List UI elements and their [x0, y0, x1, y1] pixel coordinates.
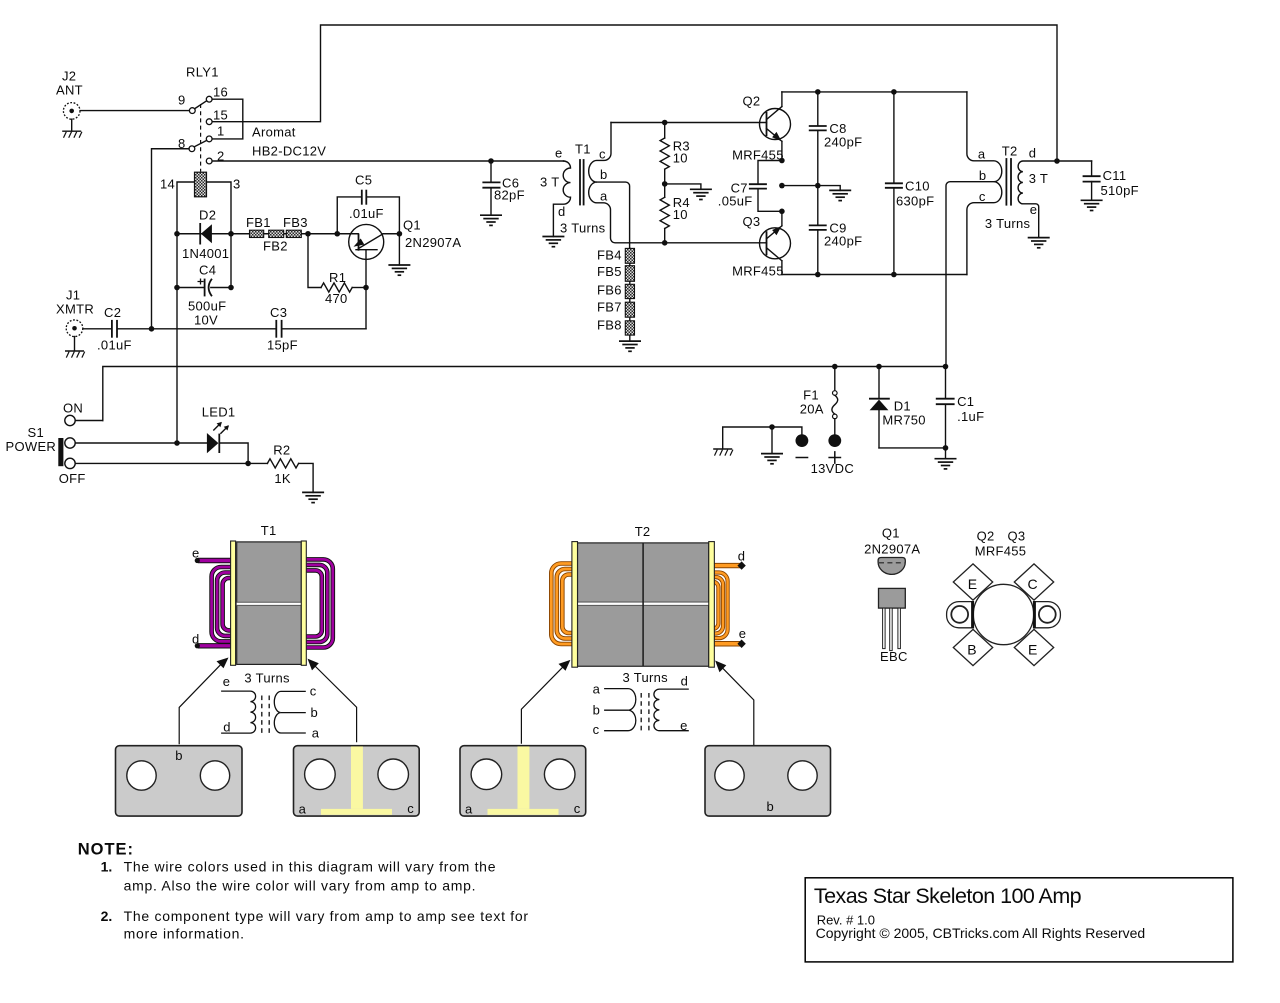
relay RLY1	[178, 65, 326, 172]
node 13VDC plus terminal	[828, 434, 841, 447]
transistor Q2	[732, 92, 790, 163]
ground chassis J2	[62, 131, 82, 138]
wire FB chain to ground	[629, 248, 631, 341]
ground Q1	[388, 265, 410, 275]
svg-text:3 T: 3 T	[540, 175, 559, 190]
svg-text:Aromat: Aromat	[252, 125, 296, 140]
svg-text:a: a	[978, 146, 986, 161]
svg-text:amp. Also the wire color will: amp. Also the wire color will vary from …	[124, 878, 477, 894]
ground T1-d	[542, 237, 564, 247]
resistor R3	[660, 123, 690, 184]
svg-text:c: c	[593, 722, 600, 737]
svg-text:240pF: 240pF	[824, 135, 862, 150]
svg-text:20A: 20A	[800, 402, 824, 417]
svg-text:RLY1: RLY1	[186, 65, 219, 80]
svg-text:B: B	[967, 641, 976, 657]
arrow to T1 right strip	[308, 659, 357, 743]
svg-text:Q2: Q2	[743, 94, 761, 109]
switch S1	[6, 400, 86, 486]
ferrite bead FB6	[625, 284, 634, 298]
connector J2	[56, 69, 83, 132]
svg-text:NOTE:: NOTE:	[78, 841, 134, 859]
capacitor C6	[483, 158, 525, 215]
node C8/C9 junction	[815, 183, 821, 189]
wire ON contact to rail	[75, 420, 102, 422]
svg-text:d: d	[223, 719, 231, 734]
svg-text:10V: 10V	[194, 313, 218, 328]
ground C7 row	[829, 190, 851, 200]
svg-text:1K: 1K	[274, 471, 291, 486]
svg-text:b: b	[175, 748, 183, 763]
svg-text:2N2907A: 2N2907A	[405, 235, 461, 250]
T2 core body	[578, 543, 709, 666]
svg-text:d: d	[192, 631, 200, 646]
ground 13VDC chassis	[713, 449, 733, 456]
svg-text:FB8: FB8	[597, 318, 622, 333]
svg-text:R1: R1	[329, 270, 346, 285]
svg-text:1N4001: 1N4001	[182, 246, 229, 261]
svg-text:T2: T2	[635, 524, 651, 539]
svg-text:a: a	[312, 725, 320, 740]
heatsink plate 1	[116, 746, 243, 816]
capacitor C3	[267, 305, 366, 353]
transformer T2 (schematic)	[946, 92, 1057, 367]
svg-text:d: d	[738, 548, 746, 563]
svg-text:Q1: Q1	[882, 526, 900, 541]
svg-text:T1: T1	[261, 523, 277, 538]
svg-text:b: b	[311, 705, 319, 720]
svg-text:POWER: POWER	[6, 439, 57, 454]
transformer T1 (schematic)	[540, 123, 767, 249]
svg-text:S1: S1	[28, 425, 45, 440]
svg-text:MRF455: MRF455	[975, 544, 1027, 559]
ground C6	[480, 215, 502, 225]
node T2-d junction	[1054, 158, 1060, 164]
resistor R1	[308, 234, 366, 306]
svg-text:c: c	[574, 801, 581, 816]
svg-text:3 Turns: 3 Turns	[985, 216, 1031, 231]
svg-text:a: a	[600, 189, 608, 204]
transformer T2 physical drawing	[521, 524, 753, 746]
arrow to T1 left strip	[179, 658, 228, 745]
capacitor C5	[337, 173, 399, 234]
ferrite bead FB4	[625, 248, 634, 263]
LED LED1	[202, 405, 236, 454]
T1 winding pictogram	[221, 674, 320, 740]
wire collector rail bottom	[782, 274, 967, 276]
svg-text:a: a	[465, 802, 473, 817]
wire LED1 to OFF row	[219, 443, 248, 463]
wire S1 common to LED1	[75, 442, 207, 444]
transistor Q3	[732, 211, 790, 278]
svg-text:more information.: more information.	[124, 926, 245, 942]
capacitor C11	[1057, 161, 1139, 200]
T1 bobbin strip right	[301, 541, 306, 665]
T2 lead d	[712, 563, 740, 568]
resistor R2	[267, 443, 313, 493]
svg-text:3 Turns: 3 Turns	[623, 670, 669, 685]
svg-text:FB4: FB4	[597, 248, 622, 263]
svg-text:C: C	[1028, 576, 1038, 592]
wire Q1 emitter to ground	[398, 234, 400, 265]
svg-text:FB7: FB7	[597, 300, 622, 315]
svg-text:Q1: Q1	[403, 218, 421, 233]
wire pin16 to pin1	[212, 99, 243, 139]
wire top rail (pin15 to T2-d)	[212, 25, 1057, 161]
svg-text:16: 16	[213, 85, 228, 100]
ground chassis J1	[65, 351, 85, 358]
svg-text:b: b	[600, 167, 608, 182]
svg-text:C1: C1	[957, 394, 974, 409]
svg-text:FB5: FB5	[597, 264, 622, 279]
transistor Q1 package drawing	[864, 526, 920, 665]
svg-text:.1uF: .1uF	[957, 409, 984, 424]
svg-text:F1: F1	[803, 387, 819, 402]
capacitor C10	[886, 92, 935, 275]
svg-text:FB2: FB2	[263, 239, 288, 254]
ground R3/R4	[690, 189, 712, 199]
svg-text:e: e	[739, 626, 747, 641]
capacitor C4	[188, 263, 226, 328]
svg-text:FB1: FB1	[246, 215, 271, 230]
wire Q2 base row (T1-c to Q2)	[611, 122, 767, 124]
transistor Q2/Q3 package drawing	[947, 529, 1061, 666]
T2 lead e	[712, 641, 740, 646]
T2 winding right loops (orange)	[713, 573, 728, 639]
T1 lead e	[198, 558, 233, 563]
ground C11	[1081, 200, 1103, 210]
svg-text:.01uF: .01uF	[97, 338, 132, 353]
svg-text:630pF: 630pF	[896, 193, 934, 208]
svg-text:.01uF: .01uF	[349, 206, 384, 221]
wire J2 to relay pin 9	[80, 110, 189, 112]
svg-text:Q2: Q2	[977, 529, 995, 544]
T1 lead d	[198, 643, 233, 648]
connector J1	[56, 288, 94, 351]
T2 bobbin strip left	[572, 542, 578, 668]
arrow to T2 right strip	[715, 661, 754, 747]
capacitor C8	[810, 92, 863, 186]
svg-text:9: 9	[178, 93, 186, 108]
svg-text:2.: 2.	[101, 908, 113, 924]
svg-text:C2: C2	[104, 305, 121, 320]
svg-text:c: c	[979, 189, 986, 204]
wire power rail 13V	[103, 367, 946, 421]
svg-text:d: d	[1029, 145, 1037, 160]
wire R3/R4 mid to ground	[665, 184, 701, 189]
svg-text:MRF455: MRF455	[732, 264, 784, 279]
fuse F1	[800, 367, 838, 435]
T2 winding left loops (orange)	[551, 564, 573, 645]
svg-text:Q3: Q3	[743, 214, 761, 229]
svg-text:c: c	[310, 684, 317, 699]
wire pin2 to T1-e	[212, 160, 563, 162]
wire collector rail top	[782, 91, 967, 93]
T2 bobbin strip right	[709, 542, 715, 668]
node Q1 emitter junction	[397, 231, 403, 237]
ground C1	[935, 459, 957, 469]
T1 core body	[237, 542, 302, 665]
svg-text:b: b	[767, 799, 775, 814]
svg-text:XMTR: XMTR	[56, 302, 94, 317]
wire Q1 collector to C3 row	[365, 288, 367, 329]
ground 13VDC earth	[761, 454, 783, 464]
svg-text:ANT: ANT	[56, 83, 83, 98]
capacitor C7	[718, 158, 785, 214]
T1 winding left loops (purple)	[212, 567, 232, 641]
ferrite bead FB2	[269, 230, 284, 237]
node D1/C1 junction	[943, 445, 949, 451]
svg-text:The component type will vary f: The component type will vary from amp to…	[124, 908, 529, 924]
svg-text:J1: J1	[66, 288, 80, 303]
svg-text:e: e	[192, 546, 200, 561]
svg-text:10: 10	[673, 151, 688, 166]
ferrite bead FB8	[625, 321, 634, 335]
wire S1 OFF row	[75, 462, 267, 464]
svg-text:C4: C4	[199, 263, 216, 278]
svg-text:15pF: 15pF	[267, 338, 298, 353]
svg-text:1.: 1.	[101, 859, 113, 875]
svg-text:3 Turns: 3 Turns	[244, 671, 290, 686]
svg-text:.05uF: .05uF	[718, 193, 753, 208]
svg-text:d: d	[558, 204, 566, 219]
svg-text:C11: C11	[1103, 168, 1127, 183]
capacitor C2	[83, 305, 276, 353]
ground T2-e	[1028, 238, 1050, 248]
svg-text:a: a	[299, 802, 307, 817]
heatsink plate 3	[460, 746, 586, 817]
svg-text:ON: ON	[63, 400, 83, 415]
ground R2	[302, 492, 324, 502]
heatsink plate 4	[705, 746, 831, 816]
svg-text:HB2-DC12V: HB2-DC12V	[252, 144, 326, 159]
svg-text:13VDC: 13VDC	[811, 461, 854, 476]
svg-text:LED1: LED1	[202, 405, 236, 420]
svg-text:FB6: FB6	[597, 283, 622, 298]
svg-text:2N2907A: 2N2907A	[864, 542, 920, 557]
wire minus terminal to grounds	[723, 427, 802, 449]
T1 winding right loops (purple)	[305, 559, 333, 647]
svg-text:e: e	[223, 674, 231, 689]
node 13VDC minus terminal	[796, 434, 809, 447]
svg-text:C5: C5	[355, 173, 372, 188]
svg-text:E: E	[1028, 641, 1037, 657]
svg-text:15: 15	[213, 108, 228, 123]
arrow to T2 left strip	[521, 660, 570, 744]
T1 bobbin strip left	[231, 541, 236, 665]
heatsink plate 2	[294, 746, 420, 817]
svg-text:510pF: 510pF	[1101, 183, 1139, 198]
ferrite bead FB1	[250, 230, 264, 237]
svg-text:e: e	[680, 718, 688, 733]
wire pin8 down to C2 row	[152, 149, 190, 329]
svg-text:c: c	[407, 801, 414, 816]
ferrite bead FB5	[625, 266, 634, 282]
diode D1	[870, 367, 946, 448]
svg-text:Q3: Q3	[1008, 529, 1026, 544]
title block box	[805, 878, 1233, 962]
relay coil box wires	[160, 177, 241, 444]
svg-text:470: 470	[325, 291, 348, 306]
svg-text:J2: J2	[62, 69, 76, 84]
svg-text:b: b	[979, 168, 987, 183]
svg-text:10: 10	[673, 207, 688, 222]
svg-text:82pF: 82pF	[494, 188, 525, 203]
svg-text:Copyright © 2005, CBTricks.com: Copyright © 2005, CBTricks.com All Right…	[816, 925, 1146, 941]
transistor Q1	[349, 218, 462, 288]
svg-text:The wire colors used in this d: The wire colors used in this diagram wil…	[124, 859, 497, 875]
capacitor C9	[810, 186, 863, 275]
svg-text:c: c	[599, 147, 606, 162]
svg-text:e: e	[1030, 202, 1038, 217]
svg-text:240pF: 240pF	[824, 234, 862, 249]
svg-text:MR750: MR750	[882, 412, 925, 427]
svg-text:T1: T1	[575, 142, 591, 157]
svg-text:1: 1	[217, 124, 225, 139]
svg-text:FB3: FB3	[283, 215, 308, 230]
svg-text:3: 3	[233, 177, 241, 192]
svg-text:EBC: EBC	[880, 649, 908, 664]
svg-text:C10: C10	[905, 179, 930, 194]
node R4/Q3 base junction	[662, 240, 668, 246]
svg-text:b: b	[593, 702, 601, 717]
svg-text:3 Turns: 3 Turns	[560, 221, 606, 236]
resistor R4	[660, 184, 690, 243]
relay coil	[195, 172, 207, 197]
svg-text:E: E	[968, 576, 977, 592]
svg-text:OFF: OFF	[59, 471, 86, 486]
svg-text:R2: R2	[273, 443, 290, 458]
node R3/R4 junction	[662, 181, 668, 187]
svg-text:3 T: 3 T	[1029, 171, 1048, 186]
wire emitter mid row to ground	[779, 183, 785, 189]
transformer T1 physical drawing	[179, 523, 356, 745]
svg-text:14: 14	[160, 177, 175, 192]
svg-text:Texas Star Skeleton 100 Amp: Texas Star Skeleton 100 Amp	[814, 884, 1082, 908]
svg-text:a: a	[593, 682, 601, 697]
svg-text:d: d	[681, 673, 689, 688]
svg-text:e: e	[555, 146, 563, 161]
ground FB8	[619, 341, 641, 351]
svg-text:500uF: 500uF	[188, 299, 226, 314]
ferrite bead FB3	[286, 230, 301, 237]
svg-text:T2: T2	[1002, 143, 1018, 158]
diode D2	[182, 208, 229, 262]
capacitor C1	[937, 367, 985, 459]
node R1/collector junction	[363, 285, 369, 291]
svg-text:D2: D2	[199, 208, 216, 223]
T2 winding pictogram	[593, 673, 689, 737]
svg-text:C3: C3	[270, 305, 287, 320]
ferrite bead FB7	[625, 302, 634, 317]
wire D2 row to Q1 base	[231, 233, 358, 235]
